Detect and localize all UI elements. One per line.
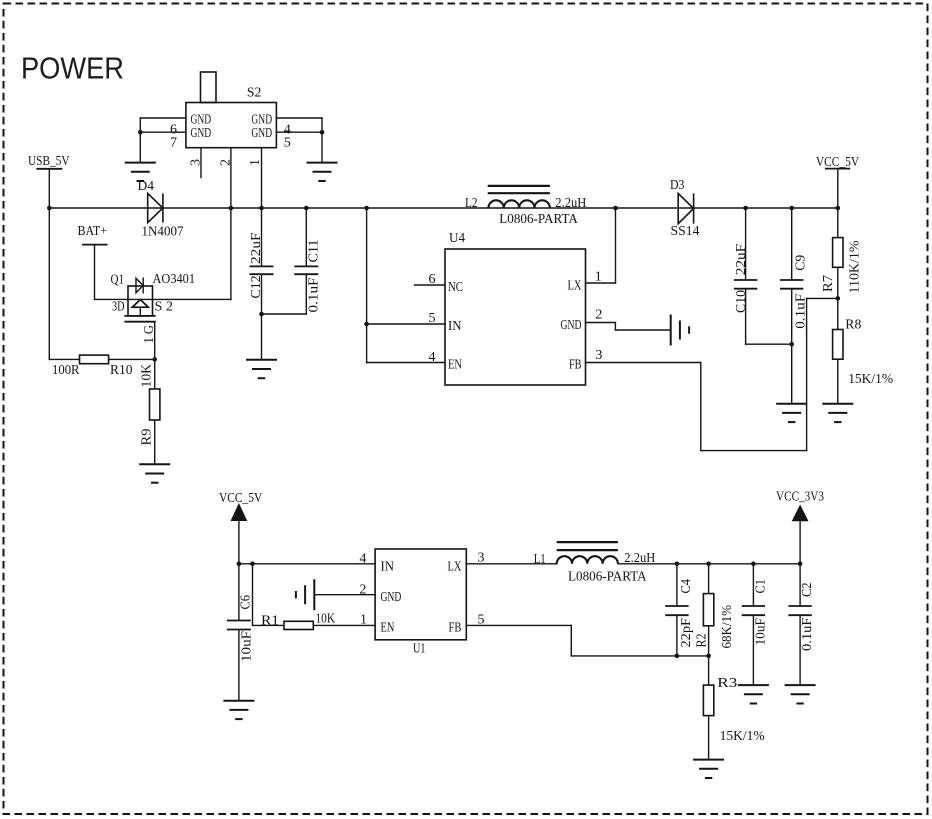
svg-text:15K/1%: 15K/1% xyxy=(720,729,765,744)
inductor L1 coil xyxy=(557,556,618,564)
diode D4 cathode bar xyxy=(162,193,164,222)
transistor Q1 arrow stem xyxy=(139,307,141,316)
svg-text:0.1uF: 0.1uF xyxy=(307,277,322,312)
wire U1 FB pin xyxy=(466,624,571,626)
svg-text:FB: FB xyxy=(569,358,582,373)
wire branch to R1 xyxy=(253,624,285,626)
switch S2 button xyxy=(201,72,217,103)
ground S2 right xyxy=(307,163,338,181)
wire R1 branch drop xyxy=(252,564,254,626)
ground R9 xyxy=(139,464,170,482)
wire rail to R10 xyxy=(49,358,79,360)
transistor Q1 body diode triangle xyxy=(136,278,143,293)
capacitor C11 top plate xyxy=(294,265,318,267)
svg-text:100R: 100R xyxy=(52,363,80,378)
svg-text:VCC_3V3: VCC_3V3 xyxy=(776,490,824,505)
node junction R2/R3 on FB net xyxy=(706,654,711,659)
wire BAT+ stub xyxy=(94,245,96,300)
wire L1 to VCC_3V3 rail xyxy=(618,563,800,565)
capacitor C4 bottom plate xyxy=(665,614,688,616)
wire C10 top drop xyxy=(745,208,747,280)
node junction VCC on bottom rail xyxy=(237,562,242,567)
svg-text:R8: R8 xyxy=(845,317,861,332)
svg-text:10uF: 10uF xyxy=(240,631,255,662)
wire R3 to ground xyxy=(708,716,710,760)
transistor Q1 body diode bar xyxy=(142,278,144,293)
capacitor C1 top plate xyxy=(742,605,765,607)
ground R3 xyxy=(693,760,724,778)
wire R2 bottom xyxy=(708,626,710,656)
svg-text:L0806-PARTA: L0806-PARTA xyxy=(499,212,578,227)
svg-text:1: 1 xyxy=(595,270,602,285)
node junction C12/C11 bottoms xyxy=(259,312,264,317)
svg-text:4: 4 xyxy=(429,350,436,365)
svg-text:L2: L2 xyxy=(465,196,478,211)
svg-text:GND: GND xyxy=(561,318,582,333)
wire C1 to ground xyxy=(752,615,754,685)
node junction S2 pin2 on rail xyxy=(229,206,234,211)
svg-text:R2: R2 xyxy=(694,634,709,648)
node junction C4 on rail xyxy=(675,562,680,567)
ground U1 GND rotated xyxy=(296,579,314,610)
wire S2 right drop to ground xyxy=(321,118,323,163)
svg-text:5: 5 xyxy=(284,135,291,150)
wire junction to R9 xyxy=(154,359,156,389)
svg-text:3: 3 xyxy=(478,551,485,566)
ground C2 xyxy=(785,685,816,703)
svg-text:L1: L1 xyxy=(534,552,546,567)
svg-text:22uF: 22uF xyxy=(734,244,749,276)
node junction gate/R10/R9 xyxy=(152,357,157,362)
wire C4 drop xyxy=(676,564,678,606)
ground S2 left xyxy=(125,163,156,181)
node junction S2 right pins xyxy=(320,130,325,135)
wire Q1 drain-source horizontal xyxy=(95,298,231,300)
switch S2 body xyxy=(186,103,277,148)
wire R1 to U1 EN xyxy=(313,624,375,626)
capacitor C12 bottom plate xyxy=(250,273,274,275)
svg-text:7: 7 xyxy=(170,135,177,150)
node junction USB_5V on rail xyxy=(47,206,52,211)
svg-text:GND: GND xyxy=(251,126,272,141)
USB_5V port bar xyxy=(36,168,62,170)
svg-text:GND: GND xyxy=(191,126,212,141)
svg-text:U4: U4 xyxy=(449,231,465,246)
capacitor C12 top plate xyxy=(250,265,274,267)
svg-text:AO3401: AO3401 xyxy=(153,272,196,287)
wire S2 pin2 drop xyxy=(230,148,232,300)
wire left rail down to R10 xyxy=(48,208,50,359)
svg-text:S2: S2 xyxy=(247,86,262,101)
node junction R2 on rail xyxy=(706,562,711,567)
wire C6 drop xyxy=(238,564,240,621)
wire bottom rail to U1 IN xyxy=(239,563,375,565)
node junction C1 on rail xyxy=(751,562,756,567)
wire U4 GND to ground symbol xyxy=(615,329,670,331)
wire VCC_5V stub xyxy=(837,169,839,208)
svg-text:1: 1 xyxy=(248,159,263,166)
node junction C9 on rail xyxy=(789,206,794,211)
svg-text:R1: R1 xyxy=(261,613,279,628)
node junction LX on rail xyxy=(613,206,618,211)
wire R8 to ground xyxy=(837,359,839,404)
svg-text:5: 5 xyxy=(429,311,436,326)
svg-text:R10: R10 xyxy=(110,363,133,378)
capacitor C11 bottom plate xyxy=(294,273,318,275)
node junction R7/R8 divider xyxy=(836,296,841,301)
resistor R7 body xyxy=(833,238,843,268)
resistor R8 body xyxy=(833,330,843,360)
wire C6 to ground xyxy=(238,630,240,701)
svg-text:GND: GND xyxy=(381,590,402,605)
svg-text:1N4007: 1N4007 xyxy=(142,225,184,240)
wire C1 drop xyxy=(752,564,754,606)
svg-text:FB: FB xyxy=(449,621,462,636)
BAT+ port bar xyxy=(82,244,108,246)
resistor R2 body xyxy=(703,594,713,626)
transistor Q1 body box xyxy=(128,286,153,316)
wire R7 to junction xyxy=(837,267,839,298)
capacitor C4 top plate xyxy=(665,605,688,607)
wire VCC_5V arrow stem xyxy=(238,511,240,564)
svg-text:D4: D4 xyxy=(138,179,155,194)
ground C12 xyxy=(246,360,277,378)
svg-text:C2: C2 xyxy=(800,583,815,598)
svg-text:C6: C6 xyxy=(239,595,254,610)
capacitor C9 bottom plate xyxy=(780,288,803,290)
svg-text:IN: IN xyxy=(381,560,395,575)
wire R3 top xyxy=(708,656,710,685)
wire S2 pin1 drop to C12 xyxy=(261,148,263,267)
svg-text:22pF: 22pF xyxy=(679,618,694,648)
wire U4 LX pin xyxy=(586,282,616,284)
svg-text:2: 2 xyxy=(219,159,234,166)
resistor R1 body xyxy=(284,621,313,629)
node junction C2/VCC_3V3 on rail xyxy=(798,562,803,567)
wire VCC_3V3 arrow stem xyxy=(799,513,801,564)
wire U4 GND jog down xyxy=(614,323,616,331)
wire U4 left rail drop xyxy=(366,208,368,363)
node junction C10 on rail xyxy=(743,206,748,211)
svg-text:2: 2 xyxy=(595,308,602,323)
ground R8 xyxy=(822,404,853,422)
svg-text:SS14: SS14 xyxy=(671,224,700,239)
capacitor C2 bottom plate xyxy=(788,614,811,616)
ground C6 xyxy=(223,701,254,719)
svg-text:5: 5 xyxy=(478,612,485,627)
resistor R10 body xyxy=(80,355,109,364)
wire U4 FB pin xyxy=(586,362,701,364)
wire C2 to ground xyxy=(799,615,801,685)
wire S2 pin6 left upper xyxy=(140,117,186,119)
wire rail to R7 xyxy=(837,208,839,238)
node junction VCC_5V on rail xyxy=(836,206,841,211)
svg-text:VCC_5V: VCC_5V xyxy=(219,491,262,506)
inductor L2 coil xyxy=(488,200,550,208)
wire FB net bottom run xyxy=(701,450,807,452)
transistor Q1 channel bar xyxy=(124,315,155,317)
svg-text:LX: LX xyxy=(448,560,462,575)
wire S2 pin5 right lower xyxy=(276,131,322,133)
svg-text:S 2: S 2 xyxy=(155,300,174,315)
wire U1 LX pin to L1 xyxy=(466,563,556,565)
svg-text:6: 6 xyxy=(429,272,436,287)
IC U4 body xyxy=(445,249,586,385)
svg-text:EN: EN xyxy=(381,621,395,636)
svg-text:2.2uH: 2.2uH xyxy=(555,196,586,211)
capacitor C10 bottom plate xyxy=(734,288,757,290)
svg-text:R9: R9 xyxy=(140,429,155,446)
svg-text:D3: D3 xyxy=(670,178,685,193)
capacitor C1 bottom plate xyxy=(742,614,765,616)
wire FB net drop xyxy=(700,363,702,451)
svg-text:NC: NC xyxy=(448,280,463,295)
resistor R9 body xyxy=(150,389,160,420)
inductor L1 core line 2 xyxy=(557,549,618,551)
svg-text:10uF: 10uF xyxy=(753,618,768,646)
node junction R1 branch xyxy=(250,562,255,567)
wire U1 GND pin xyxy=(314,594,375,596)
wire C10-C9 bottom connector xyxy=(746,343,792,345)
wire U4 GND pin xyxy=(586,322,616,324)
svg-text:LX: LX xyxy=(568,279,582,294)
transistor Q1 arrow triangle xyxy=(132,300,148,308)
capacitor C6 top plate xyxy=(227,620,251,622)
wire C9 to ground xyxy=(791,289,793,404)
wire S2 left drop to ground xyxy=(139,118,141,163)
wire U4 IN xyxy=(367,323,445,325)
svg-text:3: 3 xyxy=(595,348,602,363)
wire C9 top drop xyxy=(791,208,793,280)
svg-text:Q1: Q1 xyxy=(111,273,125,288)
wire LX riser to rail xyxy=(615,208,617,283)
wire FB drop (U1) xyxy=(570,625,572,656)
svg-text:2: 2 xyxy=(359,583,366,598)
svg-text:BAT+: BAT+ xyxy=(78,224,108,239)
wire FB net riser xyxy=(806,298,808,450)
transistor Q1 gate bar xyxy=(124,321,155,323)
svg-text:USB_5V: USB_5V xyxy=(28,154,70,169)
svg-text:68K/1%: 68K/1% xyxy=(720,605,735,649)
diode D4 triangle xyxy=(148,193,163,222)
wire S2 pin3 stub xyxy=(200,148,202,178)
svg-text:C9: C9 xyxy=(794,255,809,271)
power arrow VCC_5V xyxy=(231,503,248,521)
wire C2 drop xyxy=(799,564,801,606)
svg-text:C10: C10 xyxy=(734,290,749,313)
svg-text:4: 4 xyxy=(359,551,366,566)
wire C4 lower xyxy=(676,615,678,656)
wire C12-C11 bottom connector xyxy=(262,313,307,315)
node junction U4 rail on 5V rail xyxy=(364,206,369,211)
wire S2 pin7 left lower xyxy=(140,131,186,133)
node junction C10/C9 bottoms xyxy=(789,342,794,347)
svg-text:POWER: POWER xyxy=(21,51,124,86)
inductor L2 core line 1 xyxy=(488,185,550,187)
wire C11 top drop xyxy=(305,208,307,266)
svg-text:1: 1 xyxy=(360,613,367,628)
node junction S2 pin1 on rail xyxy=(259,206,264,211)
svg-text:C11: C11 xyxy=(307,240,322,263)
wire U4 EN xyxy=(367,362,445,364)
svg-text:C1: C1 xyxy=(753,579,768,594)
ground C1 xyxy=(738,685,769,703)
node junction S2 left pins xyxy=(138,130,143,135)
diode D3 triangle xyxy=(678,193,693,223)
svg-text:10K: 10K xyxy=(140,364,155,388)
capacitor C9 top plate xyxy=(780,279,803,281)
wire R10 to junction xyxy=(109,358,155,360)
inductor L1 core line 1 xyxy=(557,541,618,543)
svg-text:0.1uF: 0.1uF xyxy=(794,294,809,329)
resistor R3 body xyxy=(703,685,713,716)
svg-text:EN: EN xyxy=(448,358,462,373)
wire FB bottom run (U1) xyxy=(571,655,708,657)
wire C12 lower to ground xyxy=(261,274,263,360)
ground U4 GND rotated xyxy=(671,315,689,346)
power arrow VCC_3V3 xyxy=(792,505,809,522)
diode D3 cathode bar xyxy=(693,193,695,223)
svg-text:0.1uF: 0.1uF xyxy=(800,617,815,651)
svg-text:15K/1%: 15K/1% xyxy=(848,372,893,387)
svg-text:R7: R7 xyxy=(821,275,836,292)
node junction C4 on FB net xyxy=(675,654,680,659)
wire U4 NC stub xyxy=(415,284,446,286)
svg-text:110K/1%: 110K/1% xyxy=(847,240,862,293)
ground C9 xyxy=(776,404,807,422)
wire junction to R8 xyxy=(837,298,839,329)
wire Q1 gate down to R10/R9 junction xyxy=(154,322,156,360)
node junction U4 IN tap xyxy=(364,322,369,327)
capacitor C10 top plate xyxy=(734,279,757,281)
svg-text:3: 3 xyxy=(189,159,204,166)
svg-text:C4: C4 xyxy=(679,579,694,594)
capacitor C2 top plate xyxy=(788,605,811,607)
wire R2 top xyxy=(708,564,710,594)
svg-text:10K: 10K xyxy=(316,612,336,627)
svg-text:IN: IN xyxy=(448,319,462,334)
VCC_5V port bar xyxy=(825,168,850,170)
node junction C11 on rail xyxy=(304,206,309,211)
net USB_5V / main 5V rail wire xyxy=(49,207,838,209)
svg-text:R3: R3 xyxy=(717,676,737,691)
capacitor C6 bottom plate xyxy=(227,629,251,631)
svg-text:L0806-PARTA: L0806-PARTA xyxy=(568,569,647,584)
wire R9 to ground xyxy=(154,420,156,464)
svg-text:U1: U1 xyxy=(413,642,426,657)
wire S2 pin4 right upper xyxy=(276,117,322,119)
svg-text:22uF: 22uF xyxy=(249,232,264,264)
IC U1 body xyxy=(375,549,466,640)
wire USB_5V stub xyxy=(48,169,50,208)
svg-text:3D: 3D xyxy=(112,300,125,315)
wire C10 lower xyxy=(745,289,747,345)
wire C11 lower xyxy=(305,274,307,314)
inductor L2 core line 2 xyxy=(488,192,550,194)
wire FB net to divider xyxy=(807,297,838,299)
